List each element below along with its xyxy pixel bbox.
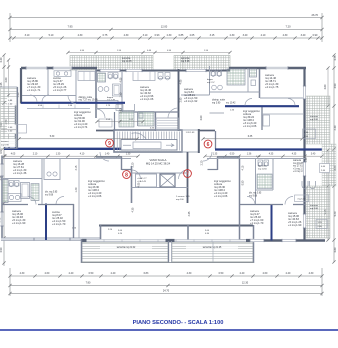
bath apt9 wc and bidet [108,73,113,79]
terrace bottom-right hatch [172,242,253,262]
right terrace lower boundary [306,186,330,238]
svg-text:0.50: 0.50 [230,154,235,156]
stair inner box [133,142,161,149]
stair landing east [182,130,199,152]
left balcony dim chip b [7,125,17,134]
svg-text:4.10: 4.10 [80,154,85,156]
svg-text:MQ 14.25 MC 38.24: MQ 14.25 MC 38.24 [146,162,171,166]
bagno center hatch [138,112,154,127]
window top-right wall b [186,69,206,72]
bath center fixtures [158,73,163,79]
svg-text:6.83: 6.83 [144,272,149,275]
svg-text:mq 2.57: mq 2.57 [207,82,215,84]
bath apt7 hatch floor [257,174,272,189]
left vertical dimension chain [3,55,5,266]
svg-text:2.53: 2.53 [180,97,183,102]
svg-text:3.10: 3.10 [143,34,148,37]
kitchen counter apt9 [99,119,112,127]
svg-text:+1 mq 0.77: +1 mq 0.77 [53,88,67,92]
window west lower wall b [0,212,3,226]
window east wall c [303,214,306,228]
partition apt8 top [2,158,131,160]
svg-text:+1 mq 1.36: +1 mq 1.36 [13,171,27,175]
mid dim row right [205,155,322,157]
svg-text:mq 5.30: mq 5.30 [298,199,307,201]
svg-text:+4+A 1.77: +4+A 1.77 [137,177,147,180]
stair upper flight [156,118,179,130]
door arc apt8 entry [132,170,141,179]
svg-text:3.40: 3.40 [311,154,316,156]
svg-text:2.80: 2.80 [5,77,8,82]
svg-text:1.40: 1.40 [105,154,110,156]
wall apt8 bath east [41,159,43,205]
bagno center fixtures [139,113,143,118]
svg-text:2.05: 2.05 [190,34,195,37]
left balcony dim chip a [7,98,17,106]
bottom dim row1 [10,275,322,277]
bath apt7 fixtures [258,160,263,166]
terrace right edge wall [253,225,255,263]
svg-text:mq 7.27 mc 19.09: mq 7.27 mc 19.09 [79,99,99,102]
wall top-left wing [21,67,97,69]
svg-text:+1 mq 3.74: +1 mq 3.74 [74,125,88,129]
wall center-right core [178,69,180,131]
svg-text:2.60: 2.60 [45,272,50,275]
svg-text:bg. 4.00: bg. 4.00 [258,166,266,168]
window west lower wall a [0,164,3,176]
closet apt9 rip [97,101,118,109]
svg-text:3.15: 3.15 [210,34,215,37]
bath apt8 second hatch [31,184,39,201]
cucina apt9 counter [54,71,71,77]
left balcony label [1,139,16,147]
partition apt7 rooms top [239,204,283,206]
svg-text:4.05: 4.05 [138,182,141,187]
bottom dim row3 overall [10,293,322,295]
stair treads [116,132,118,151]
terrace bottom-left label [100,244,152,249]
boxed dim 0.40 2.40 right [303,129,316,139]
svg-text:terrazza: terrazza [310,204,319,207]
terrace bottom edge [81,262,254,264]
terrace strip hatch top left [70,56,153,71]
wall apt7 rooms west [239,159,241,241]
wardrobe apt9 under window [27,108,90,110]
bath apt6 wc bidet [211,70,216,76]
svg-text:4.15: 4.15 [242,165,245,170]
svg-text:+1 mq 1.06: +1 mq 1.06 [140,97,154,101]
svg-text:1.36: 1.36 [247,154,252,156]
door arc cucina apt9 [68,96,76,104]
svg-text:1.35: 1.35 [213,154,218,156]
svg-text:2.40: 2.40 [240,272,245,275]
svg-text:4.30: 4.30 [334,125,337,130]
terrace top dim marks [68,52,230,54]
living width dim left [19,138,137,140]
bath apt9 tub [113,84,121,96]
svg-text:3.60: 3.60 [200,115,203,120]
bath apt8 shower tall [2,180,8,203]
svg-text:12.30: 12.30 [242,282,249,285]
svg-text:+1 mq 4.06: +1 mq 4.06 [88,194,102,198]
bath apt8 tub [21,183,30,199]
wall apt6 living west [215,131,217,149]
wall left facade mid [15,103,17,149]
svg-text:5.40: 5.40 [334,211,337,216]
svg-text:mq 14.35: mq 14.35 [122,61,132,63]
svg-text:7: 7 [186,171,189,177]
partition apt6 hallway [210,112,225,114]
wall bagno center west [137,112,139,127]
bath apt7 walls [255,159,257,205]
entry walls apt7 [217,156,240,158]
door arc apt7 entry [179,170,188,179]
bath apt8 vanity [8,194,21,202]
window east wall b [303,162,306,176]
svg-text:4.05: 4.05 [120,77,123,82]
boxed dim 0.40 2.40 east [320,164,330,173]
left balcony dim line [1,129,16,131]
svg-text:terrazza: terrazza [122,57,131,60]
wall right east [303,68,305,240]
terrace left edge wall [81,239,83,263]
wall bath apt9 east [121,71,123,112]
svg-text:terrazza mq 21.25: terrazza mq 21.25 [203,246,222,249]
bottom dim extension lines [9,268,11,296]
stairwell outer walls [114,130,182,152]
stair void inner rect [121,140,177,151]
svg-text:26.70: 26.70 [312,13,319,17]
svg-text:0.50: 0.50 [89,272,94,275]
svg-text:mq 4.00: mq 4.00 [176,199,184,201]
door arc apt6 b [288,99,295,106]
bagno2 wc [116,105,123,111]
wall bottom-left glazing band [1,238,101,241]
svg-text:+1 mq 1.70: +1 mq 1.70 [250,221,264,225]
svg-text:mq 11.84: mq 11.84 [258,168,267,170]
svg-text:disimp. notte: disimp. notte [212,99,226,102]
apartment number 6 [204,140,212,148]
svg-text:2.10: 2.10 [33,154,38,156]
partition apt8 rooms top [2,204,28,206]
svg-text:4.10: 4.10 [261,34,266,37]
svg-text:3.10: 3.10 [25,34,30,37]
svg-text:4.30: 4.30 [187,272,192,275]
window bottom-right wall a [250,239,264,242]
terrace glazing mullions [103,239,105,242]
door arc stair right [203,152,212,161]
terrace strip hatch top right [174,56,230,71]
window top-left wall a [26,66,47,69]
right terrace upper hatch [306,96,330,144]
bagno2 center hatch [119,111,134,128]
entry walls apt8 [96,156,122,158]
door arc stair left [100,152,109,161]
svg-text:mc 10.42: mc 10.42 [226,102,236,104]
svg-text:3.60: 3.60 [120,108,123,113]
svg-text:2.40: 2.40 [286,272,291,275]
terrace bottom-right label [186,244,238,249]
svg-text:4.35: 4.35 [188,211,191,216]
svg-text:mc 9.68: mc 9.68 [249,195,258,197]
blue window band left mid [4,148,124,150]
dimension chain row2 [10,29,322,31]
svg-text:mq 3.80: mq 3.80 [212,102,221,104]
micro dim row center top [97,121,143,123]
door arc soggiorno big [132,133,148,143]
svg-text:7.95: 7.95 [67,25,73,29]
svg-text:+1 mq 1.70: +1 mq 1.70 [52,222,66,226]
partition center rooms bottom [96,108,122,110]
svg-text:0.45: 0.45 [334,55,337,60]
blue partition vertical apt7 [271,205,273,241]
svg-text:0.85: 0.85 [179,34,184,37]
blue window band apt9 upper [21,102,125,104]
svg-text:mq 5.38: mq 5.38 [181,61,190,63]
window east wall a [303,86,306,99]
partition apt8 bath top [2,178,42,180]
blue window band apt6 upper [225,105,299,107]
svg-text:4.15: 4.15 [75,165,78,170]
door arc apt8 rooms [28,197,36,205]
dimension chain row3 segments [10,37,322,39]
wall top-right wing [229,67,306,69]
apartment number 8 [123,171,131,179]
wall stair connect right [199,130,215,132]
svg-text:5.10: 5.10 [49,34,54,37]
window top-left wall b [53,66,72,69]
svg-text:+1 mq 1.90: +1 mq 1.90 [288,223,302,227]
svg-text:0.50: 0.50 [219,272,224,275]
svg-text:12.00: 12.00 [161,25,168,29]
left secondary chain [8,60,10,150]
dimension chain overall 26.70 [10,17,322,19]
bath apt6 second fixtures [250,69,257,77]
svg-text:0.90: 0.90 [313,34,318,37]
svg-text:dis. mq 3.85: dis. mq 3.85 [249,193,262,195]
svg-text:terrazza: terrazza [181,57,190,60]
bath apt6 shower hatch [227,69,245,85]
terrace glazing band bottom [86,239,248,242]
apartment number 9 [106,139,114,147]
svg-text:4.05: 4.05 [11,154,16,156]
wall apt8 cucina east [73,204,75,238]
svg-text:4.35: 4.35 [269,154,274,156]
mid dim row left [5,155,138,157]
svg-text:1.40: 1.40 [75,187,78,192]
elevator shaft [160,174,175,187]
bath apt9 sinks [98,87,103,92]
svg-text:+1 mq 4.06: +1 mq 4.06 [243,124,257,128]
svg-text:1.30: 1.30 [56,154,61,156]
boxed dim 1.20 2.80 right [316,220,327,229]
right edge hatch strip [322,144,336,186]
svg-text:2.40: 2.40 [69,272,74,275]
stair east wall [198,129,200,153]
svg-text:+1 mq 1.90: +1 mq 1.90 [12,221,26,225]
svg-text:2.30: 2.30 [167,34,172,37]
wall bath strip west [114,112,116,131]
svg-text:1.30: 1.30 [305,157,308,162]
partition apt6 bath [247,68,249,92]
svg-text:+4 mq 1.92: +4 mq 1.92 [184,99,198,103]
svg-text:VANO SCALA: VANO SCALA [150,158,167,162]
svg-text:mq 8.86: mq 8.86 [310,119,319,121]
bed camera apt9 [133,72,155,81]
bath apt7 vanity basins [302,181,316,189]
svg-text:3.40: 3.40 [243,34,248,37]
svg-text:mq 9.98: mq 9.98 [1,144,9,146]
svg-text:+4.A 2.43: +4.A 2.43 [137,180,147,183]
left balcony top edge [1,86,18,88]
svg-text:+4 mq 1.75: +4 mq 1.75 [265,85,279,89]
svg-text:3.80: 3.80 [324,84,327,89]
stair direction line [123,144,131,146]
blue partition vertical apt8 [45,204,47,241]
wall loggia right vertical [187,225,189,241]
svg-text:2.40: 2.40 [111,272,116,275]
terrace bottom-left hatch [82,242,168,262]
dimension extension lines top [9,13,11,42]
bath apt8 wc bidet [9,181,14,187]
window terrace wall b [126,69,142,72]
svg-text:0.30: 0.30 [0,57,3,62]
svg-text:0.80: 0.80 [334,247,337,252]
svg-text:0.50: 0.50 [242,180,245,185]
svg-text:6.35: 6.35 [248,136,253,138]
svg-text:+1 mq 4.06: +1 mq 4.06 [214,194,228,198]
svg-text:terrazza: terrazza [1,140,9,143]
door arc apt6 entry [245,99,252,106]
door arc soggiorno apt9 b [30,95,37,102]
svg-text:4.30: 4.30 [283,34,288,37]
window terrace wall a [100,69,120,72]
svg-text:+1 mq 1.71: +1 mq 1.71 [27,88,41,92]
door arc soggiorno apt9 [42,95,49,102]
svg-text:7.80: 7.80 [86,282,91,285]
wall apt6 living divider [261,107,263,130]
boxed label mq 5.30 [295,195,309,202]
partition camera/cucina apt9 [47,69,49,95]
svg-text:dis. mq 3.85: dis. mq 3.85 [45,192,58,194]
right secondary chain lower [327,150,329,240]
partition rooms bottom apt9 [22,95,76,97]
core corridor walls [131,166,133,203]
svg-text:3.40: 3.40 [301,34,306,37]
svg-text:7.20: 7.20 [285,25,291,29]
blue window band right mid [215,148,322,150]
wall stair connect left [96,130,114,132]
wall bath apt9 west [95,69,97,118]
terrace wall piers [82,239,87,242]
left balcony wall east [16,87,18,149]
svg-text:0.75: 0.75 [103,34,108,37]
right secondary dim marks [327,68,329,106]
window bottom-right wall b [282,239,296,242]
wall bottom living band [99,225,253,227]
svg-text:2.30: 2.30 [230,34,235,37]
svg-text:1.30: 1.30 [120,92,123,97]
boxed dim 2.40 [17,125,27,134]
svg-text:24.70: 24.70 [163,290,170,293]
svg-text:4.05: 4.05 [180,79,183,84]
svg-text:9: 9 [108,141,111,147]
svg-text:2.60: 2.60 [263,272,268,275]
door arc center room b [168,108,178,118]
svg-text:4.30: 4.30 [78,34,83,37]
wall apt6 camera2 west [259,69,261,98]
svg-text:8: 8 [125,172,128,178]
svg-text:4.30: 4.30 [20,272,25,275]
bath apt9 shower [98,73,106,82]
svg-text:terrazza mq 21.02: terrazza mq 21.02 [117,246,136,249]
window top-right wall a [266,66,288,69]
wall bagno center east [155,112,157,132]
living width dim right [203,138,302,140]
svg-text:4.30: 4.30 [309,272,314,275]
left balcony hatch [1,87,17,149]
svg-text:bagno: bagno [207,79,214,81]
apartment number 7 [184,170,192,178]
wall loggia left vertical [100,225,102,239]
svg-text:1.20 1.63: 1.20 1.63 [186,132,196,134]
svg-text:5.30: 5.30 [50,136,55,138]
small room apt8 [44,159,60,180]
door arc apt7 rooms [285,197,293,205]
wall apt8 corridor [78,159,80,239]
partition apt6 rooms bottom [181,94,210,96]
title underline blue [0,329,338,331]
terrace divider wall [168,241,170,263]
right vertical dimension chain [333,55,335,262]
svg-text:3.90: 3.90 [334,83,337,88]
svg-text:4.05: 4.05 [0,82,3,87]
partition cucina/disimp apt9 [75,69,77,103]
svg-text:4.35: 4.35 [132,207,135,212]
counter apt6 living [262,113,304,115]
svg-text:4.30: 4.30 [124,34,129,37]
bottom dim row2 [10,285,322,287]
svg-text:6: 6 [207,142,210,148]
svg-text:mc 9.68: mc 9.68 [45,194,54,196]
svg-text:PIANO SECONDO- - SCALA 1:1: PIANO SECONDO- - SCALA 1:100 [133,320,224,326]
partition apt6 camera east [209,66,211,95]
svg-text:mq 9.86: mq 9.86 [310,208,319,210]
svg-text:0.93: 0.93 [155,34,160,37]
wall bottom-right [239,239,325,242]
armadio disimp apt9 [78,72,95,81]
svg-text:4.35: 4.35 [292,154,297,156]
partition apt7 top [207,158,305,160]
wall left lower wing west [1,156,3,241]
door arc center room [96,109,105,118]
storage room core [136,174,157,187]
svg-text:1 ascens. 1.70: 1 ascens. 1.70 [176,196,190,198]
svg-text:terrazza: terrazza [310,115,319,118]
wall under terrace strip [96,70,230,72]
bath apt6 sinks [212,85,217,90]
wall wc divider center [134,104,136,111]
svg-text:0.90: 0.90 [0,247,3,252]
svg-text:1.30: 1.30 [126,154,131,156]
svg-text:0.30: 0.30 [0,149,3,154]
wall left top wing [20,68,22,104]
